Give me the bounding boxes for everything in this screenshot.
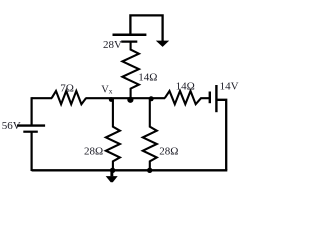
wire: bottom return wire xyxy=(32,169,228,171)
svg-text:Vx: Vx xyxy=(101,85,113,96)
svg-text:28Ω: 28Ω xyxy=(84,146,103,158)
node dot at Vx xyxy=(109,97,114,102)
battery 56V xyxy=(17,126,45,132)
ground (top, arrow symbol) xyxy=(156,41,169,47)
svg-text:14Ω: 14Ω xyxy=(138,71,157,83)
node dot at right 28Ω bottom xyxy=(147,168,152,173)
svg-text:28Ω: 28Ω xyxy=(159,146,178,158)
wire: main node wire left segment xyxy=(32,97,53,99)
ground (bottom, arrow symbol) xyxy=(106,170,118,182)
battery 14V xyxy=(210,85,217,112)
wire: right branch from 14V battery down xyxy=(216,100,226,171)
svg-text:14V: 14V xyxy=(220,81,239,93)
resistor 28Ω (left) xyxy=(106,98,120,171)
node dot at 14Ω junction xyxy=(127,97,133,103)
wire: top ground loop from 28V battery xyxy=(130,15,162,41)
resistor 14Ω (horizontal) xyxy=(165,91,209,104)
node dot at right 28Ω junction xyxy=(149,96,154,101)
resistor 14Ω (top vertical) xyxy=(122,42,138,99)
resistor 28Ω (right) xyxy=(143,98,157,171)
battery 28V xyxy=(113,35,147,42)
svg-text:28V: 28V xyxy=(103,39,122,51)
wire: main node wire middle segment (node Vx) xyxy=(86,97,166,99)
wire: 56V battery to bottom wire xyxy=(31,132,33,171)
svg-text:7Ω: 7Ω xyxy=(60,82,74,94)
node dot at left 28Ω bottom xyxy=(110,168,115,173)
svg-text:14Ω: 14Ω xyxy=(176,81,195,93)
svg-text:56V: 56V xyxy=(2,120,21,132)
resistor 7Ω xyxy=(52,91,86,104)
wire: left branch down to 56V battery xyxy=(31,97,33,125)
